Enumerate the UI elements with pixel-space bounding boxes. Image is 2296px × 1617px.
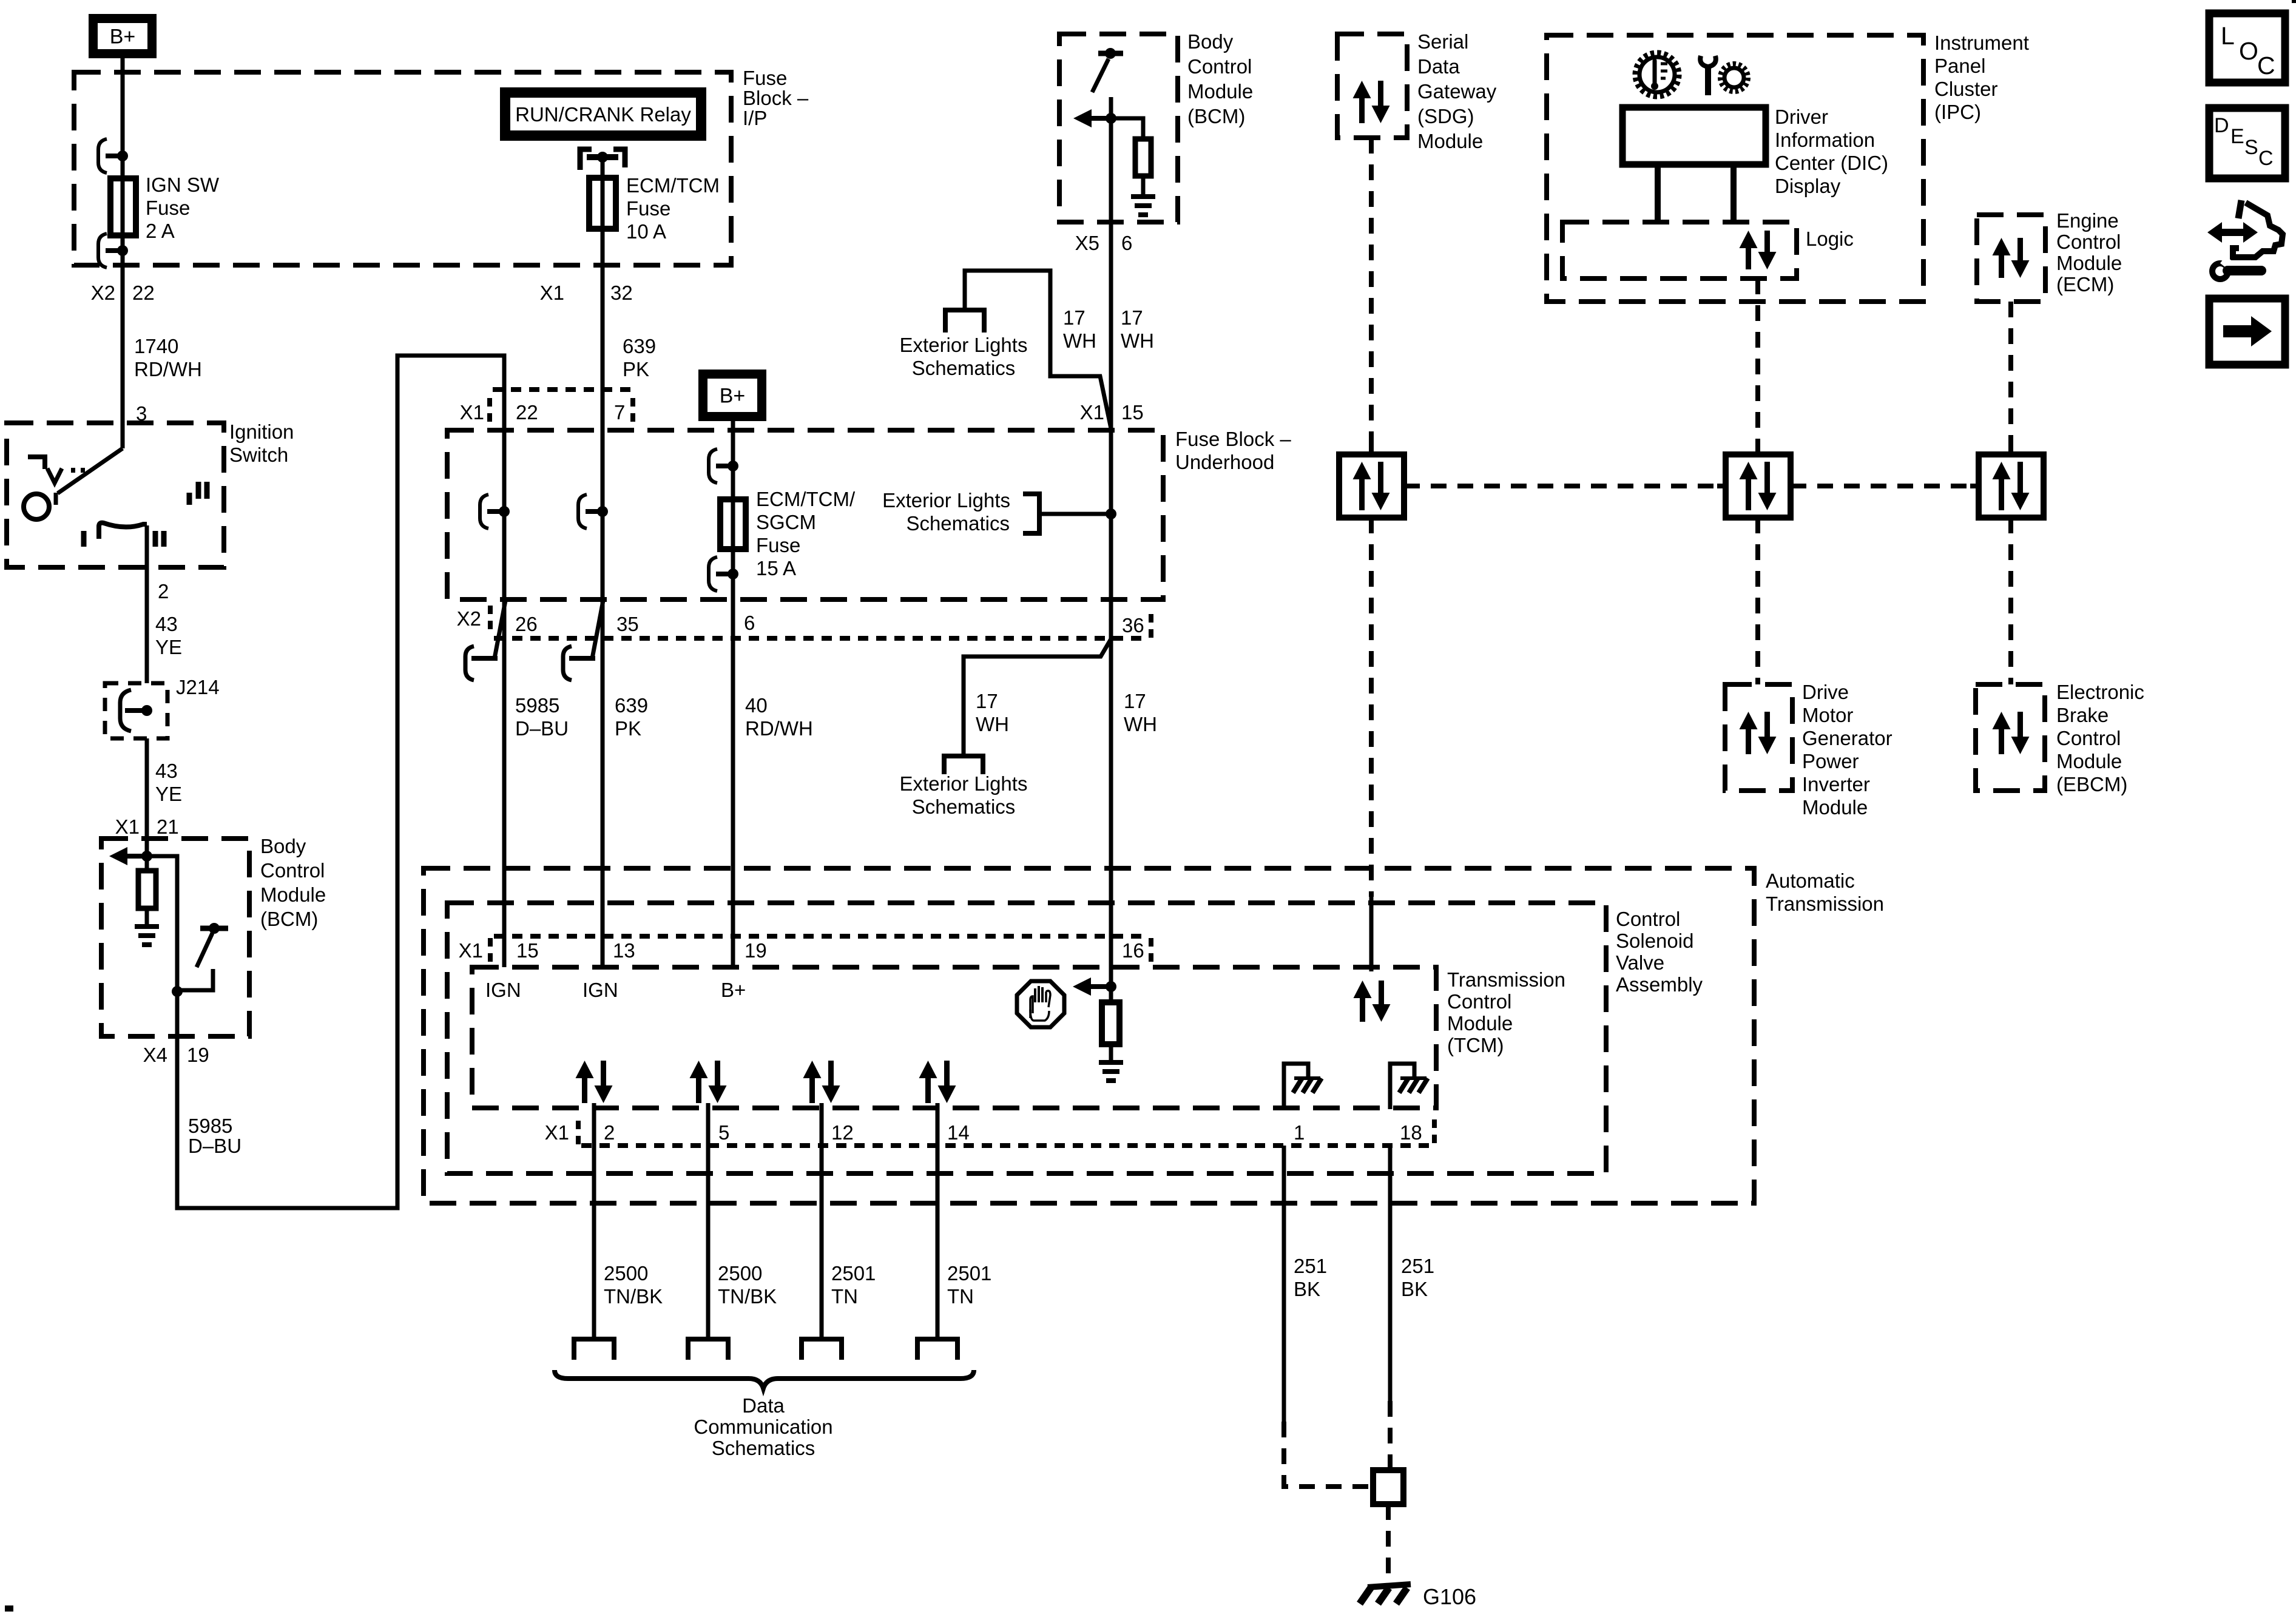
svg-text:O: O [2239,37,2258,65]
exterior lights bracket (middle) [1023,494,1039,533]
svg-text:D–BU: D–BU [188,1135,241,1157]
svg-text:5985: 5985 [515,694,559,717]
svg-text:Exterior Lights: Exterior Lights [882,489,1010,511]
BCM branch wire to output [147,856,177,1036]
ignition switch dashed box [7,423,224,567]
TCM resistor [1109,987,1113,1002]
svg-text:Schematics: Schematics [712,1437,815,1459]
svg-text:21: 21 [157,815,179,838]
power symbol B+ (top left) [89,14,157,58]
data wire 2500 TN/BK #1 [592,1146,596,1339]
svg-text:15 A: 15 A [756,557,796,579]
svg-text:Drive: Drive [1802,681,1849,703]
engine control module dashed box [1977,215,2045,302]
svg-text:(BCM): (BCM) [1187,105,1245,127]
svg-text:Cluster: Cluster [1934,78,1998,100]
svg-text:(EBCM): (EBCM) [2056,773,2127,795]
svg-text:IGN SW: IGN SW [146,174,220,196]
svg-text:6: 6 [1121,232,1132,254]
ground G106 [1368,1584,1411,1587]
svg-text:18: 18 [1400,1121,1422,1144]
resistor branch in BCM (top) [1111,118,1143,139]
svg-text:Serial: Serial [1417,30,1468,53]
svg-text:Transmission: Transmission [1766,893,1884,915]
svg-text:Instrument: Instrument [1934,32,2029,54]
svg-text:D–BU: D–BU [515,717,569,740]
svg-text:Communication: Communication [694,1416,832,1438]
page mark [5,1605,13,1612]
svg-text:2: 2 [604,1121,615,1144]
data wire 2500 TN/BK #2 [706,1146,711,1339]
svg-text:Generator: Generator [1802,727,1893,749]
svg-text:1: 1 [1294,1121,1305,1144]
svg-text:2501: 2501 [947,1262,991,1284]
data wire 2501 TN #3 [820,1146,824,1339]
svg-text:Module: Module [1447,1012,1513,1035]
svg-text:Assembly: Assembly [1616,973,1703,996]
svg-text:PK: PK [615,717,641,740]
inline connector J214 [105,683,167,738]
wire 17 WH trunk (BCM to TCM) [1109,97,1113,987]
svg-text:X4: X4 [143,1044,167,1066]
svg-text:2500: 2500 [718,1262,762,1284]
arrows in logic box [1740,231,1758,269]
svg-text:17: 17 [1063,306,1086,329]
automatic transmission dashed box [424,868,1754,1203]
transmission control module dashed box [472,967,1436,1108]
svg-text:14: 14 [947,1121,970,1144]
svg-text:35: 35 [616,613,639,635]
svg-text:TN: TN [831,1285,858,1308]
svg-text:Information: Information [1775,129,1875,151]
svg-text:32: 32 [610,282,633,304]
svg-text:X1: X1 [1080,401,1104,424]
data bus splice box (right) [1979,454,2044,518]
svg-text:(ECM): (ECM) [2056,273,2114,295]
svg-text:Data: Data [742,1394,785,1417]
svg-text:5: 5 [718,1121,729,1144]
off-page reference exterior lights (top) [945,310,984,333]
svg-text:WH: WH [1121,329,1154,352]
dashed data wire SDG down [1369,138,1374,454]
svg-text:15: 15 [1121,401,1144,424]
svg-text:X1: X1 [545,1121,569,1144]
svg-text:1740: 1740 [134,335,178,357]
ground wire 251 BK pin 1 [1282,1146,1286,1422]
svg-text:17: 17 [1124,690,1146,712]
svg-text:Control: Control [2056,231,2121,253]
svg-text:Module: Module [1187,80,1253,103]
branch wire to exterior lights (bottom) [964,639,1111,756]
svg-text:639: 639 [615,694,648,717]
TCM input arrow [1073,977,1091,996]
svg-text:X1: X1 [115,815,140,838]
svg-text:Fuse: Fuse [146,197,190,219]
ignition wiper arc [99,523,147,527]
arrows in ECM box [1993,238,2011,278]
fuse IGN SW 2A [110,178,136,235]
svg-text:Body: Body [260,835,306,857]
BCM input arrow [109,847,127,865]
svg-text:Fuse Block –: Fuse Block – [1175,428,1291,450]
svg-text:G106: G106 [1423,1584,1476,1609]
body control module (left) dashed box [101,839,249,1036]
svg-text:22: 22 [516,401,538,424]
ignition position I mark [81,531,87,547]
wire from B+ to ignition switch (1740 circuit) [121,58,125,448]
svg-text:PK: PK [623,358,649,380]
svg-text:B+: B+ [721,979,746,1001]
svg-text:TN/BK: TN/BK [604,1285,663,1308]
svg-text:15: 15 [516,939,539,962]
svg-text:(IPC): (IPC) [1934,101,1981,123]
wrench-gear icon [1705,67,1711,95]
svg-text:S: S [2244,136,2258,159]
ground in BCM (left) [135,924,159,929]
svg-text:Data: Data [1417,55,1460,78]
svg-text:40: 40 [745,694,768,717]
svg-text:43: 43 [155,760,178,782]
svg-text:Panel: Panel [1934,55,1985,77]
svg-text:L: L [2221,22,2235,50]
svg-text:Module: Module [260,883,326,906]
svg-text:RUN/CRANK Relay: RUN/CRANK Relay [515,103,691,126]
svg-text:C: C [2257,52,2275,79]
svg-text:Ignition: Ignition [229,420,294,443]
svg-text:6: 6 [744,612,755,634]
svg-text:Schematics: Schematics [912,357,1016,379]
svg-text:BK: BK [1294,1278,1320,1300]
pass-through terminal on wire 639 [592,601,603,658]
dashed bus wire segment 2 [1791,484,1979,488]
ground wire 251 BK pin 18 [1388,1146,1393,1401]
svg-text:WH: WH [1124,713,1157,735]
svg-text:(TCM): (TCM) [1447,1034,1504,1056]
svg-text:(BCM): (BCM) [260,908,318,930]
dashed data wire ECM down [2008,302,2013,454]
svg-text:Center (DIC): Center (DIC) [1775,152,1888,174]
svg-text:251: 251 [1401,1255,1434,1277]
solenoid arrows pin 14 [919,1061,937,1103]
arrows on SDG wire in TCM [1354,981,1372,1022]
svg-text:IGN: IGN [485,979,521,1001]
svg-text:Logic: Logic [1806,228,1854,250]
svg-text:Module: Module [1417,130,1483,152]
ignition position II mark [153,531,158,547]
svg-text:Exterior Lights: Exterior Lights [900,772,1028,795]
svg-text:D: D [2214,114,2229,137]
svg-text:(SDG): (SDG) [1417,105,1474,127]
svg-text:Electronic: Electronic [2056,681,2144,703]
svg-text:RD/WH: RD/WH [134,358,202,380]
ground pigtail pin 18 [1390,1064,1414,1109]
svg-text:TN: TN [947,1285,974,1308]
DESC icon [2209,108,2285,178]
svg-text:Control: Control [1447,990,1511,1013]
svg-text:Driver: Driver [1775,106,1828,128]
svg-text:C: C [2258,147,2274,170]
dashed wire to G106 [1386,1504,1391,1584]
svg-text:BK: BK [1401,1278,1428,1300]
svg-text:ECM/TCM/: ECM/TCM/ [756,488,856,510]
DIC display box [1622,107,1766,164]
svg-text:19: 19 [745,939,767,962]
svg-text:B+: B+ [110,25,136,49]
svg-text:Switch: Switch [229,444,288,466]
svg-text:10 A: 10 A [626,220,666,243]
arrows in SDG box [1353,81,1371,123]
svg-text:J214: J214 [176,676,220,698]
svg-text:Engine: Engine [2056,209,2119,232]
LOC icon [2209,13,2285,83]
svg-text:Module: Module [1802,796,1868,819]
svg-text:TN/BK: TN/BK [718,1285,777,1308]
svg-text:YE: YE [155,636,182,658]
svg-text:Module: Module [2056,252,2122,274]
fuse block I/P dashed box [74,72,731,265]
svg-text:Exterior Lights: Exterior Lights [900,334,1028,356]
svg-text:Underhood: Underhood [1175,451,1274,473]
svg-text:X1: X1 [460,401,484,424]
dashed wire to drive motor module [1755,518,1760,684]
data bus splice box (middle) [1726,454,1791,518]
svg-text:251: 251 [1294,1255,1327,1277]
svg-text:B+: B+ [720,385,746,408]
terminal clip on wire 7 inside underhood block [578,495,587,528]
solenoid wires to connector [592,1103,596,1146]
BCM arrow (top) [1073,109,1092,127]
svg-text:2: 2 [158,580,169,603]
svg-text:Schematics: Schematics [912,795,1016,818]
fuse ECM/TCM 10A [589,178,616,229]
switch in BCM (top) [1098,51,1123,56]
svg-text:YE: YE [155,783,182,805]
dashed data wire IPC down [1755,279,1760,454]
forward arrow icon [2209,299,2285,365]
svg-text:Control: Control [1616,908,1680,930]
svg-text:I/P: I/P [743,107,767,129]
body control module (top) dashed box [1059,34,1178,222]
svg-text:X1: X1 [540,282,564,304]
drive motor generator module dashed box [1725,684,1792,791]
svg-text:Fuse: Fuse [626,197,670,220]
ground pigtail pin 1 [1284,1064,1308,1109]
fuse block underhood dashed box [447,430,1163,599]
svg-text:Inverter: Inverter [1802,773,1870,795]
solenoid arrows pin 2 [576,1061,594,1103]
logic dashed box [1562,222,1797,279]
control solenoid valve assembly dashed box [447,903,1606,1173]
terminal clip above ECM/TCM/SGCM fuse [709,449,717,483]
svg-text:5985: 5985 [188,1115,232,1137]
svg-text:639: 639 [623,335,656,357]
terminal clip on wire 22 inside underhood block [480,495,488,528]
svg-text:Module: Module [2056,750,2122,772]
off-page reference exterior lights (bottom) [944,756,983,774]
dashed bus wire segment 1 [1404,484,1726,488]
pass-through terminal on wire 5985 [495,601,505,658]
connector X1 row (underhood top) [493,387,634,392]
power symbol B+ (underhood) [698,370,766,421]
svg-text:17: 17 [976,690,998,712]
ignition position IV mark [28,457,45,469]
ignition position III mark [187,493,192,505]
svg-text:IGN: IGN [582,979,618,1001]
TCM ground [1099,1060,1123,1065]
svg-text:17: 17 [1121,306,1143,329]
EBCM dashed box [1976,684,2045,791]
dashed wire SDG to TCM [1369,518,1374,897]
svg-text:Control: Control [1187,55,1252,78]
svg-text:Control: Control [260,859,325,882]
terminal clip below IGN SW fuse [98,234,107,268]
splice box [1373,1470,1403,1504]
svg-text:X2: X2 [91,282,115,304]
svg-text:16: 16 [1122,939,1144,962]
svg-text:36: 36 [1122,614,1144,636]
brace for data communication [555,1370,974,1388]
svg-text:WH: WH [976,713,1009,735]
svg-text:ECM/TCM: ECM/TCM [626,174,720,197]
wire 5985 D-BU loop to underhood fuse block [177,356,504,1208]
solenoid arrows pin 12 [803,1061,822,1103]
svg-text:26: 26 [515,613,538,635]
stop hand octagon icon [1017,981,1064,1027]
terminal clip below ECM/TCM/SGCM fuse [709,557,717,591]
svg-text:E: E [2230,125,2244,148]
gear-thermometer icon [1635,53,1679,96]
svg-text:Power: Power [1802,750,1859,772]
hand-wrench pointer icon [2238,200,2241,218]
svg-text:Automatic: Automatic [1766,869,1855,892]
dashed wire to EBCM [2008,518,2013,684]
resistor in BCM (left) [145,856,149,871]
svg-text:X1: X1 [459,939,483,962]
svg-text:Fuse: Fuse [743,67,787,89]
svg-text:SGCM: SGCM [756,511,816,533]
ignition switch blade and rotor [58,448,123,493]
svg-text:13: 13 [613,939,635,962]
svg-text:19: 19 [187,1044,209,1066]
instrument panel cluster dashed box [1547,35,1923,302]
wire 43 YE to BCM [145,738,149,862]
svg-text:Display: Display [1775,175,1841,197]
RUN/CRANK relay label box [500,87,706,141]
switch in BCM (left) [200,926,228,931]
svg-text:Brake: Brake [2056,704,2109,726]
wire 639 PK from relay to TCM [601,157,605,967]
svg-text:X2: X2 [457,607,481,630]
svg-text:RD/WH: RD/WH [745,717,813,740]
svg-text:2500: 2500 [604,1262,648,1284]
data bus splice box (left) [1339,454,1404,518]
svg-text:Gateway: Gateway [1417,80,1497,103]
svg-text:Transmission: Transmission [1447,968,1565,991]
svg-text:Motor: Motor [1802,704,1853,726]
svg-text:2 A: 2 A [146,220,175,242]
svg-text:X5: X5 [1075,232,1099,254]
svg-text:Fuse: Fuse [756,534,800,556]
svg-text:Block –: Block – [743,87,809,109]
terminal clip above IGN SW fuse [98,139,107,173]
relay terminal bracket [580,149,592,170]
svg-text:43: 43 [155,613,178,635]
svg-text:Body: Body [1187,30,1234,53]
svg-text:22: 22 [132,282,155,304]
data wire 2501 TN #4 [936,1146,940,1339]
wire 40 RD/WH from B+ to TCM [731,421,735,967]
svg-text:Schematics: Schematics [906,512,1010,535]
svg-text:7: 7 [614,401,625,424]
svg-text:Valve: Valve [1616,951,1664,974]
svg-text:Solenoid: Solenoid [1616,930,1693,952]
branch wire to exterior lights (top) [965,271,1111,428]
svg-text:WH: WH [1063,329,1096,352]
svg-text:2501: 2501 [831,1262,876,1284]
solenoid arrows pin 5 [690,1061,708,1103]
svg-text:12: 12 [831,1121,854,1144]
fuse ECM/TCM/SGCM 15A [720,499,746,549]
svg-text:Control: Control [2056,727,2121,749]
ignition switch output wire pin 2 [145,525,149,683]
ground in BCM (top) [1131,194,1155,199]
serial data gateway SDG dashed box [1337,34,1407,138]
